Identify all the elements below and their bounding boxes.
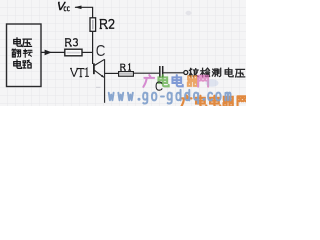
label R1: [120, 64, 131, 70]
box label 电压: [14, 38, 32, 47]
arrow on wire (pointing right): [45, 50, 52, 56]
transistor VT1 emitter stroke: [95, 70, 104, 77]
node C label: [97, 46, 104, 56]
resistor R2 inner smudge: [92, 20, 94, 30]
emitter arrowhead: [101, 75, 104, 78]
label Vcc: [57, 2, 70, 10]
faint print artifact near emitter: [96, 86, 101, 88]
resistor R2: [90, 18, 96, 32]
watermark row 1: 广电电器网 (multicolored): [143, 75, 208, 87]
output label 被检测电压: [189, 68, 245, 77]
faint scan smudge top right: [186, 11, 192, 15]
wire: R2 down to node C and transistor base: [92, 31, 94, 64]
watermark url www.go-gddq.com: [109, 90, 231, 104]
box label 翻转: [12, 49, 32, 57]
label VT1: [70, 68, 89, 77]
resistor R1: [119, 72, 134, 77]
resistor R3 inner smudge: [67, 52, 81, 54]
output terminal (open circle): [184, 71, 188, 75]
wire: R1 to capacitor C: [133, 72, 159, 74]
watermark row 2: 广电电器网 (orange, clipped at bottom): [181, 96, 248, 108]
capacitor C left plate: [159, 66, 161, 77]
capacitor label C: [156, 82, 162, 90]
wire: Vcc feed, bend down to R2: [75, 7, 93, 17]
wire: R3 to node C: [82, 51, 93, 53]
transistor VT1 collector stroke: [95, 59, 105, 65]
resistor R1 inner smudge: [120, 73, 133, 75]
arrow toward Vcc (pointing left): [74, 6, 81, 10]
label R3: [65, 39, 77, 46]
faint blue watermark wisp: [206, 79, 219, 87]
wire: capacitor to output terminal: [163, 72, 183, 74]
transistor VT1 base bar: [93, 63, 95, 74]
box label 电路: [14, 60, 31, 68]
label R2: [100, 20, 115, 29]
wire: collector-emitter vertical rail: [104, 59, 106, 103]
resistor R3: [65, 49, 82, 56]
block: voltage flip circuit box: [7, 24, 42, 87]
wire: rail to R1: [105, 72, 119, 74]
capacitor C right plate: [162, 66, 164, 77]
wire: box output to R3: [41, 51, 65, 53]
